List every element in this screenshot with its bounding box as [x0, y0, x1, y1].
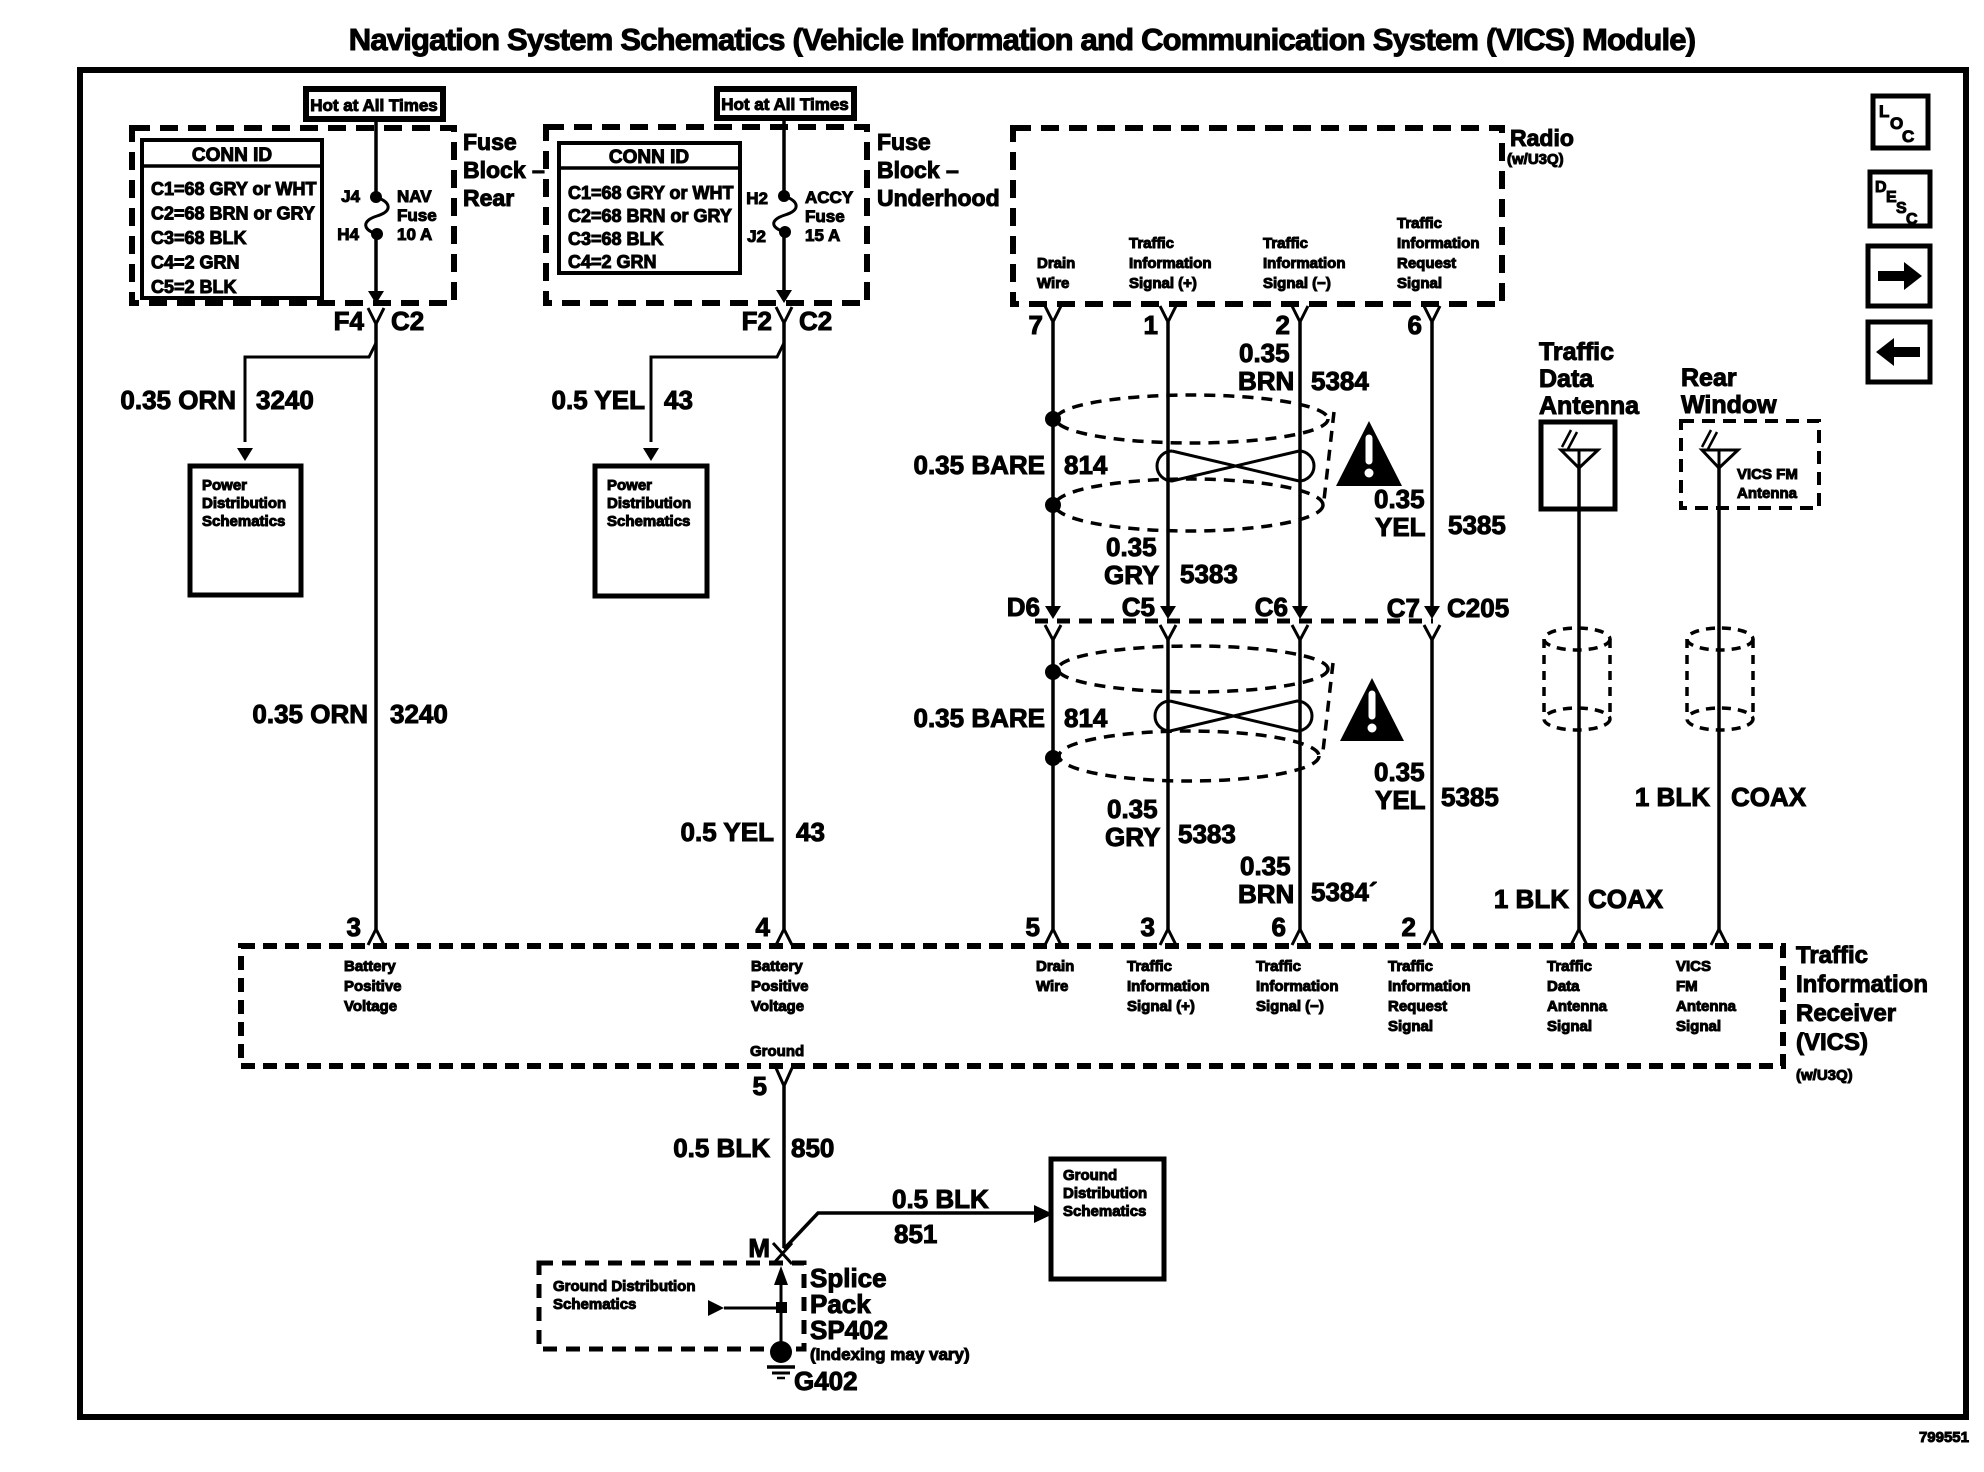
svg-text:1: 1 [1144, 310, 1158, 340]
svg-text:Power: Power [607, 477, 652, 494]
warning triangle (lower) [1340, 678, 1404, 741]
radio dashed box [1013, 128, 1502, 304]
connector C2 terminal F2 [776, 307, 792, 323]
drain wire splice dots (upper) [1045, 411, 1061, 427]
svg-text:Data: Data [1539, 365, 1594, 393]
wire: fuse output to connector C2 [374, 234, 378, 293]
svg-text:NAV: NAV [397, 187, 432, 206]
coax pass-through connector (traffic data) [1544, 628, 1610, 650]
request wire C205 to receiver pin 2 [1430, 640, 1434, 929]
svg-text:VICS: VICS [1676, 958, 1711, 975]
svg-text:(Indexing may vary): (Indexing may vary) [810, 1345, 970, 1364]
svg-text:5385: 5385 [1441, 782, 1499, 812]
svg-text:CONN ID: CONN ID [192, 145, 272, 166]
svg-text:Information: Information [1796, 971, 1928, 998]
svg-text:Drain: Drain [1036, 958, 1074, 975]
hot at all times label (left) [306, 89, 443, 119]
svg-text:799551: 799551 [1919, 1429, 1969, 1446]
drain wire splice dots (lower) [1045, 664, 1061, 680]
svg-text:Traffic: Traffic [1796, 942, 1868, 969]
wire: hot feed into NAV fuse [374, 119, 378, 192]
svg-text:Wire: Wire [1036, 978, 1068, 995]
radio pin 6 connector [1424, 306, 1440, 322]
svg-text:C5=2 BLK: C5=2 BLK [151, 277, 237, 297]
svg-text:Traffic: Traffic [1397, 215, 1442, 232]
hot at all times label (middle) [717, 89, 854, 118]
svg-text:C205: C205 [1447, 593, 1509, 623]
connector C205 dashed line [1035, 619, 1433, 624]
svg-text:COAX: COAX [1731, 782, 1807, 812]
svg-text:Positive: Positive [751, 978, 809, 995]
svg-text:Fuse: Fuse [805, 207, 845, 226]
svg-text:FM: FM [1676, 978, 1698, 995]
svg-text:C2=68 BRN or GRY: C2=68 BRN or GRY [568, 206, 732, 226]
svg-text:1 BLK: 1 BLK [1494, 884, 1569, 914]
vics fm antenna dashed box [1681, 421, 1819, 508]
CONN ID table (rear fuse block) [142, 140, 322, 298]
svg-text:814: 814 [1064, 703, 1108, 733]
coax wire: traffic data antenna to receiver [1577, 468, 1581, 929]
svg-text:Hot at All Times: Hot at All Times [310, 96, 438, 115]
svg-text:851: 851 [894, 1219, 937, 1249]
ACCY fuse element with terminals H2/J2 [778, 190, 790, 202]
C205 terminal D6 [1045, 606, 1061, 619]
svg-text:YEL: YEL [1375, 512, 1426, 542]
svg-text:C: C [1902, 127, 1914, 146]
request wire (0.35 YEL 5385) radio to C205 [1430, 322, 1434, 608]
receiver terminal (vics fm antenna) [1711, 929, 1727, 945]
TIS- wire (0.35 BRN 5384) radio to C205 [1298, 322, 1302, 608]
svg-text:L: L [1879, 102, 1889, 121]
svg-text:C1=68 GRY or WHT: C1=68 GRY or WHT [568, 183, 734, 203]
svg-text:5383: 5383 [1178, 819, 1236, 849]
vics fm antenna symbol [1702, 450, 1738, 468]
svg-text:GRY: GRY [1105, 822, 1160, 852]
svg-text:Signal (−): Signal (−) [1263, 275, 1331, 292]
svg-text:Ground Distribution: Ground Distribution [553, 1278, 695, 1295]
svg-text:Window: Window [1681, 391, 1777, 419]
TIS+ wire (0.35 GRY 5383) radio to C205 [1166, 322, 1170, 608]
svg-text:0.35 ORN: 0.35 ORN [252, 699, 368, 729]
svg-text:3: 3 [347, 912, 361, 942]
svg-text:5384: 5384 [1311, 366, 1369, 396]
svg-text:YEL: YEL [1375, 785, 1426, 815]
svg-text:F2: F2 [742, 306, 772, 336]
coax pass-through connector (vics fm) [1687, 628, 1753, 650]
traffic data antenna symbol [1561, 450, 1598, 468]
coax wire: vics fm antenna to receiver [1717, 468, 1721, 929]
svg-text:GRY: GRY [1104, 560, 1159, 590]
svg-text:4: 4 [756, 912, 771, 942]
svg-text:Request: Request [1397, 255, 1456, 272]
svg-text:Data: Data [1547, 978, 1580, 995]
svg-text:0.35: 0.35 [1239, 338, 1290, 368]
TIS- wire C205 to receiver pin 6 [1298, 640, 1302, 929]
svg-text:0.35: 0.35 [1107, 794, 1158, 824]
wire: 0.5 YEL 43 circuit to receiver pin 4 [782, 323, 786, 929]
svg-text:Signal: Signal [1547, 1018, 1592, 1035]
svg-text:Voltage: Voltage [751, 998, 804, 1015]
svg-text:Ground: Ground [750, 1043, 804, 1060]
svg-text:C2: C2 [799, 306, 832, 336]
C205 terminal C7 [1424, 606, 1440, 619]
svg-text:Positive: Positive [344, 978, 402, 995]
svg-text:C5: C5 [1122, 592, 1155, 622]
svg-text:ACCY: ACCY [805, 188, 854, 207]
svg-text:D6: D6 [1007, 592, 1040, 622]
svg-text:Receiver: Receiver [1796, 1000, 1896, 1027]
svg-text:0.5 YEL: 0.5 YEL [552, 385, 646, 415]
svg-text:Battery: Battery [344, 958, 396, 975]
twisted pair shield loop (lower) [1058, 646, 1328, 692]
svg-text:H2: H2 [746, 189, 768, 208]
twisted wires symbol (upper) [1157, 451, 1314, 481]
svg-text:10 A: 10 A [397, 225, 432, 244]
svg-text:Request: Request [1388, 998, 1447, 1015]
TIS+ wire C205 to receiver pin 3 [1166, 640, 1170, 929]
svg-text:5385: 5385 [1448, 510, 1506, 540]
svg-text:Schematics: Schematics [1063, 1203, 1146, 1220]
svg-text:C3=68 BLK: C3=68 BLK [568, 229, 664, 249]
svg-text:7: 7 [1029, 310, 1043, 340]
wire to ground [780, 1308, 783, 1344]
receiver ground pin 5 connector [776, 1068, 792, 1086]
svg-text:C3=68 BLK: C3=68 BLK [151, 228, 247, 248]
svg-text:M: M [748, 1233, 770, 1263]
warning triangle (upper) [1336, 421, 1402, 486]
ground distribution schematics box (right) [1051, 1159, 1164, 1279]
svg-text:Signal (+): Signal (+) [1127, 998, 1195, 1015]
svg-text:Antenna: Antenna [1676, 998, 1737, 1015]
svg-text:Navigation System Schematics (: Navigation System Schematics (Vehicle In… [349, 22, 1695, 57]
branch to power distribution (left) [245, 343, 376, 442]
svg-text:C: C [1906, 211, 1918, 228]
svg-text:Power: Power [202, 477, 247, 494]
svg-text:Underhood: Underhood [877, 185, 1000, 211]
svg-text:Distribution: Distribution [1063, 1185, 1147, 1202]
svg-text:0.35: 0.35 [1240, 851, 1291, 881]
svg-text:Wire: Wire [1037, 275, 1069, 292]
svg-text:Radio: Radio [1510, 125, 1574, 151]
svg-text:Signal: Signal [1388, 1018, 1433, 1035]
twisted wires symbol (lower) [1155, 701, 1312, 731]
svg-text:Schematics: Schematics [553, 1296, 636, 1313]
svg-text:0.35 ORN: 0.35 ORN [120, 385, 236, 415]
svg-text:0.5 BLK: 0.5 BLK [892, 1184, 989, 1214]
svg-text:Block –: Block – [877, 157, 959, 183]
svg-text:D: D [1875, 179, 1887, 196]
splice pack feed arrow [708, 1300, 724, 1316]
splice pack entry arrow (up) [780, 1270, 783, 1308]
svg-text:Information: Information [1397, 235, 1480, 252]
svg-text:Traffic: Traffic [1256, 958, 1301, 975]
svg-text:6: 6 [1272, 912, 1286, 942]
svg-text:Traffic: Traffic [1127, 958, 1172, 975]
svg-text:J2: J2 [747, 227, 766, 246]
svg-text:Rear: Rear [463, 185, 514, 211]
drain wire (0.35 BARE 814) radio to C205 [1051, 322, 1055, 608]
svg-text:Schematics: Schematics [202, 513, 285, 530]
fuse block underhood dashed box [546, 127, 867, 303]
svg-text:Distribution: Distribution [607, 495, 691, 512]
svg-text:C2=68 BRN or GRY: C2=68 BRN or GRY [151, 204, 315, 224]
ground wire 0.5 BLK 850 [782, 1086, 786, 1248]
svg-text:0.5 BLK: 0.5 BLK [673, 1133, 770, 1163]
svg-text:G402: G402 [794, 1366, 858, 1396]
svg-text:Fuse: Fuse [463, 129, 517, 155]
svg-text:5383: 5383 [1180, 559, 1238, 589]
traffic information receiver dashed box [241, 946, 1783, 1066]
svg-text:Battery: Battery [751, 958, 803, 975]
svg-text:Signal (+): Signal (+) [1129, 275, 1197, 292]
svg-text:Traffic: Traffic [1388, 958, 1433, 975]
svg-text:Antenna: Antenna [1737, 485, 1798, 502]
splice pack dashed box [539, 1263, 804, 1349]
svg-text:Voltage: Voltage [344, 998, 397, 1015]
svg-text:Ground: Ground [1063, 1167, 1117, 1184]
svg-text:(VICS): (VICS) [1796, 1029, 1868, 1056]
svg-text:Fuse: Fuse [397, 206, 437, 225]
svg-text:H4: H4 [337, 225, 359, 244]
LOC button [1873, 96, 1928, 148]
svg-text:Signal: Signal [1397, 275, 1442, 292]
svg-text:1 BLK: 1 BLK [1635, 782, 1710, 812]
svg-text:(w/U3Q): (w/U3Q) [1796, 1067, 1853, 1084]
CONN ID table (underhood fuse block) [559, 143, 740, 273]
svg-text:2: 2 [1402, 912, 1416, 942]
svg-text:C4=2 GRN: C4=2 GRN [151, 253, 240, 273]
svg-text:Signal (−): Signal (−) [1256, 998, 1324, 1015]
twisted pair shield loop (upper) [1056, 395, 1328, 443]
svg-text:Traffic: Traffic [1547, 958, 1592, 975]
svg-text:5: 5 [753, 1071, 767, 1101]
svg-text:6: 6 [1408, 310, 1422, 340]
svg-text:Traffic: Traffic [1263, 235, 1308, 252]
svg-text:Information: Information [1256, 978, 1339, 995]
svg-text:Block –: Block – [463, 157, 545, 183]
svg-text:Information: Information [1129, 255, 1212, 272]
fuse block rear dashed box [132, 128, 454, 303]
connector C2 terminal F4 [368, 308, 384, 324]
wire: fuse output to connector C2 (underhood) [782, 232, 786, 292]
svg-text:COAX: COAX [1588, 884, 1664, 914]
svg-text:Fuse: Fuse [877, 129, 931, 155]
svg-text:15 A: 15 A [805, 226, 840, 245]
svg-text:Antenna: Antenna [1539, 392, 1640, 420]
svg-text:43: 43 [796, 817, 825, 847]
svg-text:Signal: Signal [1676, 1018, 1721, 1035]
svg-text:CONN ID: CONN ID [609, 147, 689, 168]
C205 terminal C6 [1292, 606, 1308, 619]
radio pin 1 connector [1160, 306, 1176, 322]
svg-text:BRN: BRN [1238, 366, 1294, 396]
svg-text:Information: Information [1263, 255, 1346, 272]
svg-text:SP402: SP402 [810, 1315, 888, 1345]
svg-text:Information: Information [1127, 978, 1210, 995]
svg-text:C4=2 GRN: C4=2 GRN [568, 252, 657, 272]
svg-text:0.35: 0.35 [1374, 484, 1425, 514]
branch wire 0.5 BLK 851 to ground distribution [784, 1213, 1036, 1249]
NAV fuse element with terminals J4/H4 [370, 191, 382, 203]
wire: hot feed into ACCY fuse [782, 118, 786, 191]
svg-text:Traffic: Traffic [1129, 235, 1174, 252]
svg-text:5384´: 5384´ [1311, 877, 1378, 907]
radio pin 2 connector [1292, 306, 1308, 322]
svg-text:Hot at All Times: Hot at All Times [721, 95, 849, 114]
svg-text:850: 850 [791, 1133, 834, 1163]
svg-text:J4: J4 [341, 187, 360, 206]
svg-text:3240: 3240 [256, 385, 314, 415]
svg-text:0.5 YEL: 0.5 YEL [681, 817, 775, 847]
wire: 0.35 ORN 3240 circuit to receiver pin 3 [374, 324, 378, 929]
svg-text:Schematics: Schematics [607, 513, 690, 530]
svg-text:C2: C2 [391, 306, 424, 336]
power distribution schematics box (left) [190, 466, 301, 595]
svg-text:F4: F4 [334, 306, 365, 336]
branch to power distribution (middle) [651, 343, 784, 442]
svg-text:C6: C6 [1255, 592, 1288, 622]
svg-text:0.35: 0.35 [1106, 532, 1157, 562]
ground G402 [770, 1341, 792, 1363]
svg-text:2: 2 [1276, 310, 1290, 340]
svg-text:5: 5 [1026, 912, 1040, 942]
power distribution schematics box (middle) [595, 466, 707, 596]
svg-text:3240: 3240 [390, 699, 448, 729]
DESC button [1870, 172, 1930, 226]
back (left arrow) button [1868, 322, 1930, 382]
drain wire C205 to receiver pin 5 [1051, 640, 1055, 929]
svg-text:814: 814 [1064, 450, 1108, 480]
radio pin 7 connector [1045, 306, 1061, 322]
svg-text:3: 3 [1141, 912, 1155, 942]
receiver terminal (traffic data antenna) [1571, 929, 1587, 945]
svg-text:0.35 BARE: 0.35 BARE [914, 450, 1046, 480]
svg-text:BRN: BRN [1238, 879, 1294, 909]
svg-text:Drain: Drain [1037, 255, 1075, 272]
svg-text:43: 43 [664, 385, 693, 415]
C205 terminal C5 [1160, 606, 1176, 619]
svg-text:C7: C7 [1387, 593, 1420, 623]
svg-text:(w/U3Q): (w/U3Q) [1507, 151, 1564, 168]
svg-text:C1=68 GRY or WHT: C1=68 GRY or WHT [151, 179, 317, 199]
svg-text:0.35 BARE: 0.35 BARE [914, 703, 1046, 733]
next (right arrow) button [1868, 246, 1930, 306]
svg-text:Information: Information [1388, 978, 1471, 995]
svg-text:Antenna: Antenna [1547, 998, 1608, 1015]
traffic data antenna box [1541, 422, 1615, 509]
svg-text:Rear: Rear [1681, 364, 1737, 392]
svg-text:VICS FM: VICS FM [1737, 466, 1798, 483]
svg-text:Traffic: Traffic [1539, 338, 1614, 366]
svg-text:Distribution: Distribution [202, 495, 286, 512]
svg-text:0.35: 0.35 [1374, 757, 1425, 787]
